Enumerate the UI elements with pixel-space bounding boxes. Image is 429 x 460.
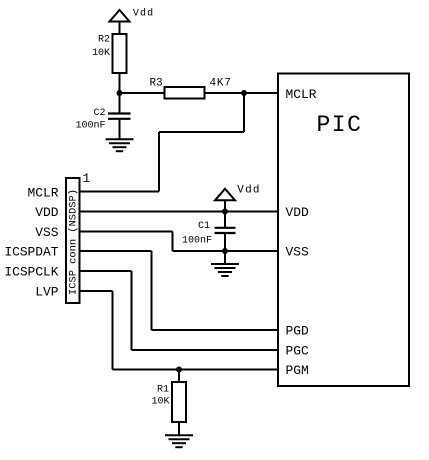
power Vdd (top) (110, 8, 155, 35)
svg-text:C2: C2 (93, 108, 105, 119)
svg-text:100nF: 100nF (182, 236, 212, 247)
wire connector pin2 VDD to PIC VDD (80, 211, 279, 213)
wire node C to C1 (224, 212, 226, 228)
svg-text:LVP: LVP (35, 285, 58, 300)
svg-text:Vdd: Vdd (237, 185, 260, 197)
wire horizontal to below node B (159, 131, 244, 133)
wire connector pin6 LVP (80, 290, 113, 292)
svg-text:VDD: VDD (286, 205, 309, 220)
wire connector pin1 MCLR (80, 191, 160, 193)
svg-text:PGD: PGD (286, 324, 309, 339)
resistor R1 (151, 382, 186, 422)
node A junction (117, 90, 123, 96)
wire R1 to ground (178, 422, 180, 436)
power Vdd (middle) (215, 185, 261, 212)
wire C1 to node D (224, 233, 226, 251)
svg-text:PGM: PGM (286, 363, 309, 378)
svg-text:MCLR: MCLR (28, 185, 59, 200)
wire R3 to node B (205, 92, 245, 94)
svg-text:VSS: VSS (35, 225, 58, 240)
svg-text:ICSP conn (NSDSP): ICSP conn (NSDSP) (68, 189, 80, 295)
ground (below R1) (165, 435, 193, 447)
capacitor C2 (75, 108, 130, 132)
wire node B to PIC MCLR pin (244, 92, 278, 94)
svg-text:10K: 10K (151, 397, 169, 408)
svg-text:10K: 10K (92, 48, 110, 59)
wire connector pin5 ICSPCLK (80, 270, 132, 272)
svg-text:ICSPDAT: ICSPDAT (4, 245, 58, 260)
wire connector pin4 ICSPDAT (80, 250, 152, 252)
wire up to node B (243, 93, 245, 132)
ground (below C2) (106, 139, 134, 151)
wire node A to R3 (120, 92, 165, 94)
wire vertical down ICSPCLK (131, 271, 133, 350)
svg-text:PGC: PGC (286, 344, 309, 359)
svg-text:PIC: PIC (317, 112, 363, 138)
svg-text:R2: R2 (98, 35, 110, 46)
wire node D to ground (224, 251, 226, 264)
svg-text:100nF: 100nF (75, 121, 105, 132)
wire node A to C2 (119, 93, 121, 113)
wire to PIC PGC pin (132, 349, 279, 351)
wire C2 to ground (119, 120, 121, 140)
svg-text:1: 1 (83, 171, 91, 186)
ground (below C1) (211, 264, 239, 276)
svg-text:4K7: 4K7 (210, 78, 232, 90)
node B junction (241, 90, 247, 96)
svg-text:Vdd: Vdd (133, 8, 154, 20)
svg-text:MCLR: MCLR (286, 87, 317, 102)
wire connector pin3 VSS (80, 231, 173, 233)
svg-text:C1: C1 (198, 221, 210, 232)
wire vertical up from pin1 (158, 132, 160, 192)
capacitor C1 (182, 221, 236, 247)
resistor R3 (150, 78, 232, 99)
svg-text:R3: R3 (150, 78, 163, 90)
connector J1 ICSP conn (NSDSP) (66, 178, 80, 303)
wire node E to R1 (178, 370, 180, 383)
node C junction (222, 209, 228, 215)
svg-text:VSS: VSS (286, 245, 309, 260)
wire VSS to PIC VSS pin (173, 250, 279, 252)
svg-text:VDD: VDD (35, 205, 58, 220)
IC U1 PIC (278, 74, 409, 387)
wire vertical down VSS (172, 232, 174, 252)
resistor R2 (92, 34, 127, 73)
wire vertical down ICSPDAT (151, 251, 153, 330)
wire to PIC PGD pin (152, 329, 279, 331)
svg-text:R1: R1 (157, 385, 169, 396)
svg-text:ICSPCLK: ICSPCLK (4, 265, 58, 280)
node E junction (176, 367, 182, 373)
node D junction (222, 248, 228, 254)
wire to PIC PGM pin (113, 369, 279, 371)
wire vertical down LVP (112, 291, 114, 370)
wire R2 to node A (119, 73, 121, 93)
